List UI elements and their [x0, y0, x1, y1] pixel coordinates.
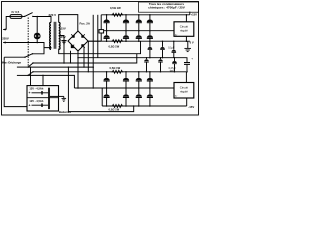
svg-text:+: +	[29, 104, 31, 108]
svg-text:0,5Ω 1W: 0,5Ω 1W	[109, 45, 120, 49]
svg-text:-15V: -15V	[188, 105, 194, 109]
vertical to L3	[70, 51, 72, 63]
resistor R1 0,5 ohm 1W	[112, 13, 124, 16]
capacitor C15	[123, 72, 129, 88]
wire L4 (S2b pivot)	[28, 66, 93, 68]
transformer T1 secondary	[59, 22, 60, 49]
ground (0V output)	[184, 41, 191, 51]
node dots 0V rail	[106, 40, 187, 42]
capacitor C10	[160, 41, 165, 58]
switch S2b	[17, 62, 34, 68]
left frame wire	[4, 57, 27, 106]
svg-text:Fr 0,5: Fr 0,5	[12, 10, 20, 14]
transformer centre tap wire	[59, 36, 64, 64]
svg-text:220 V: 220 V	[49, 13, 57, 17]
svg-text:12V - 4,5Ah: 12V - 4,5Ah	[29, 99, 43, 103]
capacitor C7	[136, 35, 142, 41]
vertical feeder x98	[97, 15, 99, 58]
vertical feeder to minus rail	[87, 41, 89, 72]
note box	[139, 2, 199, 12]
capacitor C3	[136, 15, 142, 36]
battery box	[27, 86, 59, 111]
svg-text:+: +	[29, 91, 31, 95]
capacitor C1	[104, 15, 110, 36]
svg-text:+15V: +15V	[191, 12, 198, 16]
battery B1	[32, 91, 49, 95]
svg-text:0,5Ω 1W: 0,5Ω 1W	[110, 66, 121, 70]
capacitor C12a	[144, 57, 149, 72]
lamp LP1	[34, 17, 41, 43]
svg-text:Batteries: Batteries	[59, 110, 71, 114]
wire switch to transformer primary	[33, 17, 51, 23]
capacitor C8	[147, 35, 153, 41]
svg-text:15V: 15V	[61, 35, 66, 39]
wire bridge plus to fuse column	[88, 40, 101, 42]
battery B2	[32, 103, 49, 107]
resistor R2 0,5 ohm 1W	[112, 40, 124, 43]
+15V terminal	[189, 12, 191, 15]
svg-text:tant: tant	[170, 69, 174, 72]
transformer T1 primary	[50, 22, 51, 49]
U2 input pin	[185, 72, 187, 83]
regulator box U1	[174, 22, 194, 37]
switch S2a	[4, 53, 33, 58]
+15V rail	[101, 14, 190, 16]
capacitor C20	[136, 88, 142, 106]
0V rail	[88, 40, 190, 42]
svg-text:15V: 15V	[61, 27, 66, 31]
capacitor C21	[147, 88, 153, 106]
resistor R3 0,5 ohm 1W	[112, 70, 124, 73]
bridge rectifier D1-D4	[68, 31, 88, 51]
capacitor C10b	[172, 41, 177, 58]
capacitor C18	[104, 88, 110, 106]
vertical feeder x93	[92, 15, 94, 88]
minus raw wire L2	[78, 58, 187, 63]
mid bus bottom half	[74, 87, 174, 89]
minus rail (S2c contact wire)	[33, 71, 186, 73]
wire secondary top to bridge AC1	[59, 15, 78, 31]
ground (centre tap)	[61, 41, 66, 44]
fuse F2 (Fus. 2A)	[99, 15, 104, 41]
svg-text:220V: 220V	[2, 36, 9, 40]
svg-text:0 V: 0 V	[190, 40, 194, 44]
wire L3 (S2b contact)	[33, 54, 137, 63]
switch S2c	[17, 71, 34, 76]
mains terminal arrow top	[3, 29, 6, 31]
svg-text:Fus. 2A: Fus. 2A	[80, 21, 91, 25]
capacitor C4	[147, 15, 153, 36]
svg-text:12V - 4,5Ah: 12V - 4,5Ah	[29, 86, 43, 90]
capacitor C5	[104, 35, 110, 41]
switch S1 (mains)	[22, 13, 34, 18]
vertical bottom rail left	[101, 88, 103, 106]
transformer T1 core	[53, 22, 55, 49]
capacitor C16	[136, 72, 142, 88]
capacitor C11	[184, 63, 190, 72]
wire bridge minus down	[77, 51, 79, 88]
wire secondary bottom (0V common)	[59, 41, 141, 54]
node dots minus rail	[106, 71, 188, 73]
node dots bottom rail	[106, 105, 151, 107]
capacitor C2	[123, 15, 129, 36]
wire mains bottom	[11, 42, 37, 44]
fuse F1	[10, 15, 22, 19]
border frame	[2, 2, 199, 116]
ganged switch link (dashed)	[27, 18, 29, 67]
svg-text:régulé: régulé	[180, 29, 188, 33]
capacitor C6	[123, 35, 129, 41]
battery feed wire 2	[42, 75, 44, 85]
svg-text:Mar.-Décharge: Mar.-Décharge	[2, 61, 22, 65]
U2 output pin	[186, 98, 188, 106]
U1 input pin	[185, 15, 187, 22]
wire S2a to primary return	[33, 48, 45, 54]
battery feed wire 1	[30, 67, 32, 86]
wire S2c pivot	[28, 75, 74, 88]
mid bus top half	[104, 30, 174, 32]
svg-text:+: +	[191, 57, 193, 61]
bottom return wire	[68, 67, 133, 112]
svg-text:0,5Ω 1W: 0,5Ω 1W	[109, 108, 120, 112]
capacitor C9	[148, 41, 153, 58]
bottom rail	[102, 105, 187, 107]
capacitor C19	[123, 88, 129, 106]
battery plates bar	[48, 88, 50, 109]
node dots on +15V rail	[106, 14, 187, 16]
svg-text:régulé: régulé	[180, 90, 188, 94]
regulator box U2	[174, 83, 194, 99]
junction lamp top	[36, 16, 38, 18]
resistor R4 0,5 ohm 1W	[112, 105, 124, 108]
svg-text:0,5Ω 1W: 0,5Ω 1W	[110, 6, 121, 10]
wire mains top to fuse	[6, 17, 10, 30]
ground (battery)	[62, 96, 67, 101]
capacitor C12b	[158, 57, 163, 72]
node dots mid bus bottom	[92, 87, 150, 89]
U1 ground pin	[185, 36, 187, 41]
vertical to L4	[83, 47, 85, 67]
svg-text:0,1µF: 0,1µF	[168, 47, 175, 49]
node dots mid bus	[106, 30, 151, 32]
svg-text:chimiques : 4700µF / 25V: chimiques : 4700µF / 25V	[148, 6, 186, 10]
capacitor C14	[104, 72, 110, 88]
battery output wire	[50, 95, 64, 97]
text labels layer	[2, 2, 197, 114]
capacitor C17	[147, 72, 153, 88]
mains terminal arrow bottom	[3, 42, 11, 44]
capacitor C13	[172, 57, 177, 72]
